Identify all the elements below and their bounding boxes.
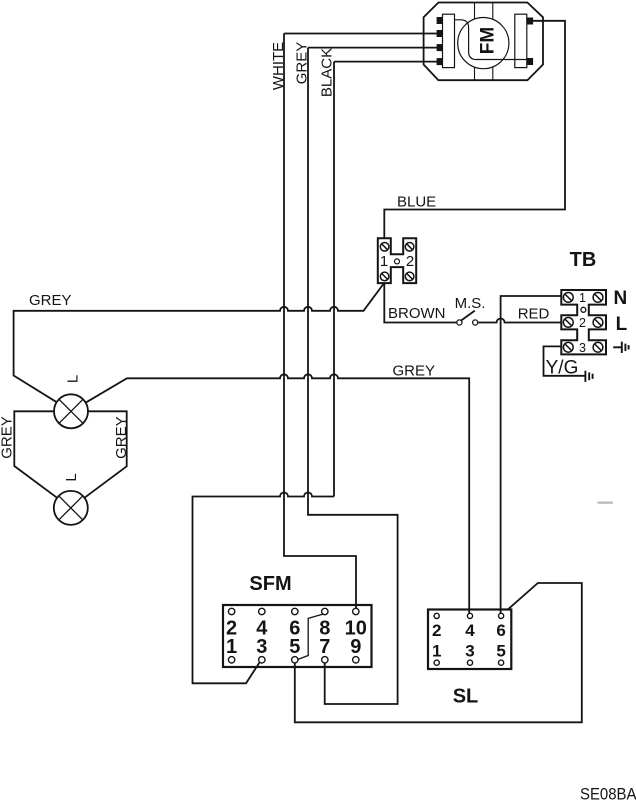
TB screw 3R [593,342,603,352]
svg-text:SFM: SFM [249,573,291,595]
motor terminal pin right 1 [527,18,533,25]
wire N from TB terminal 1 to SL pin 6 [501,296,562,613]
svg-text:2: 2 [406,253,414,270]
svg-text:Y/G: Y/G [546,357,579,378]
svg-text:3: 3 [579,341,586,355]
svg-text:FM: FM [477,27,498,54]
TB screw 2R [593,318,603,328]
connector C center hole [395,259,400,264]
TB comb body [561,290,606,354]
svg-text:WHITE: WHITE [270,42,287,90]
motor shaft band left line [474,3,476,81]
motor terminal pin left 2 [437,30,443,37]
wire WHITE vertical [284,34,437,610]
SFM bottom pin circles [228,657,359,663]
TB screw 1L [563,293,573,303]
svg-text:GREY: GREY [393,362,436,379]
wire earth from TB terminal 3 to Y/G [544,346,585,375]
connector C screw top-right [405,243,414,252]
SL pin labels bottom row [432,642,506,661]
svg-text:BROWN: BROWN [388,305,446,322]
svg-text:7: 7 [319,636,330,658]
TB screw 1R [593,293,603,303]
svg-text:GREY: GREY [0,416,16,459]
motor right brush holder [515,14,527,67]
svg-text:TB: TB [570,249,597,271]
SFM body [223,605,372,667]
wire GREY to lamps [14,284,384,403]
connector C screw bottom-left [380,272,389,281]
svg-text:3: 3 [465,642,474,661]
svg-text:GREY: GREY [29,292,72,309]
motor shaft band right line [492,3,494,81]
connector C screw bottom-right [405,272,414,281]
svg-text:L: L [63,473,80,481]
SL bottom pin circles [434,660,504,665]
motor winding curve [455,20,528,60]
svg-text:L: L [616,314,628,335]
svg-text:SL: SL [453,686,479,708]
fan motor FM octagon body [424,3,543,81]
wire BLUE from motor to connector [384,21,565,238]
svg-text:5: 5 [496,642,505,661]
svg-text:9: 9 [350,636,361,658]
wire BLACK vertical [193,62,438,684]
svg-text:5: 5 [289,636,300,658]
SFM top pin circles [228,608,359,614]
connector block SL body [428,610,511,670]
motor terminal pin right 2 [527,58,533,65]
wire lamp1 right lead to lamp2 [84,411,126,498]
lamp L1 circle [54,394,88,428]
TB screw 2L [563,318,573,328]
svg-text:L: L [65,375,82,383]
ground symbol TB row 3 [613,342,628,353]
svg-text:BLUE: BLUE [397,194,436,211]
TB screw 3L [563,342,573,352]
svg-text:M.S.: M.S. [455,295,486,312]
motor left brush holder [443,14,455,67]
wire lamp1 to SL pin 4 [86,374,470,613]
svg-text:N: N [614,288,628,309]
svg-text:1: 1 [380,253,388,270]
motor terminal pin left 1 [437,17,443,24]
motor FM circle [458,17,509,68]
svg-text:BLACK: BLACK [319,48,336,97]
svg-text:1: 1 [579,291,586,305]
smudge artifact [598,502,614,504]
connector C screw top-left [380,243,389,252]
svg-text:4: 4 [465,621,475,640]
svg-text:3: 3 [256,636,267,658]
SFM pin labels bottom row [226,636,361,658]
ground symbol below Y/G [585,371,592,382]
svg-text:SE08BA: SE08BA [580,784,636,800]
SL pin labels top row [432,621,506,640]
motor terminal pin left 3 [437,44,443,51]
svg-text:RED: RED [518,306,550,323]
wire BROWN from connector to switch [384,283,457,322]
motor terminal pin left 4 [437,58,443,65]
switch M.S. [457,311,478,326]
wire lamp1 left lead [14,411,57,498]
svg-text:1: 1 [432,642,441,661]
wire GREY vertical [308,48,437,704]
wire RED from switch to TB [478,319,562,323]
svg-text:6: 6 [496,621,505,640]
wire SFM pin5 to SL pin6 via bottom bus [295,583,582,722]
svg-text:GREY: GREY [113,416,130,459]
TB center hole [581,307,586,312]
svg-text:GREY: GREY [294,42,311,85]
svg-text:2: 2 [432,621,441,640]
SL top pin circles [434,613,504,618]
connector block C body [378,238,416,283]
svg-text:1: 1 [226,636,237,658]
svg-text:2: 2 [579,316,586,330]
SFM internal link pin8 to pin5 [297,614,322,659]
SFM pin labels top row [226,617,367,639]
lamp L2 circle [54,491,88,525]
